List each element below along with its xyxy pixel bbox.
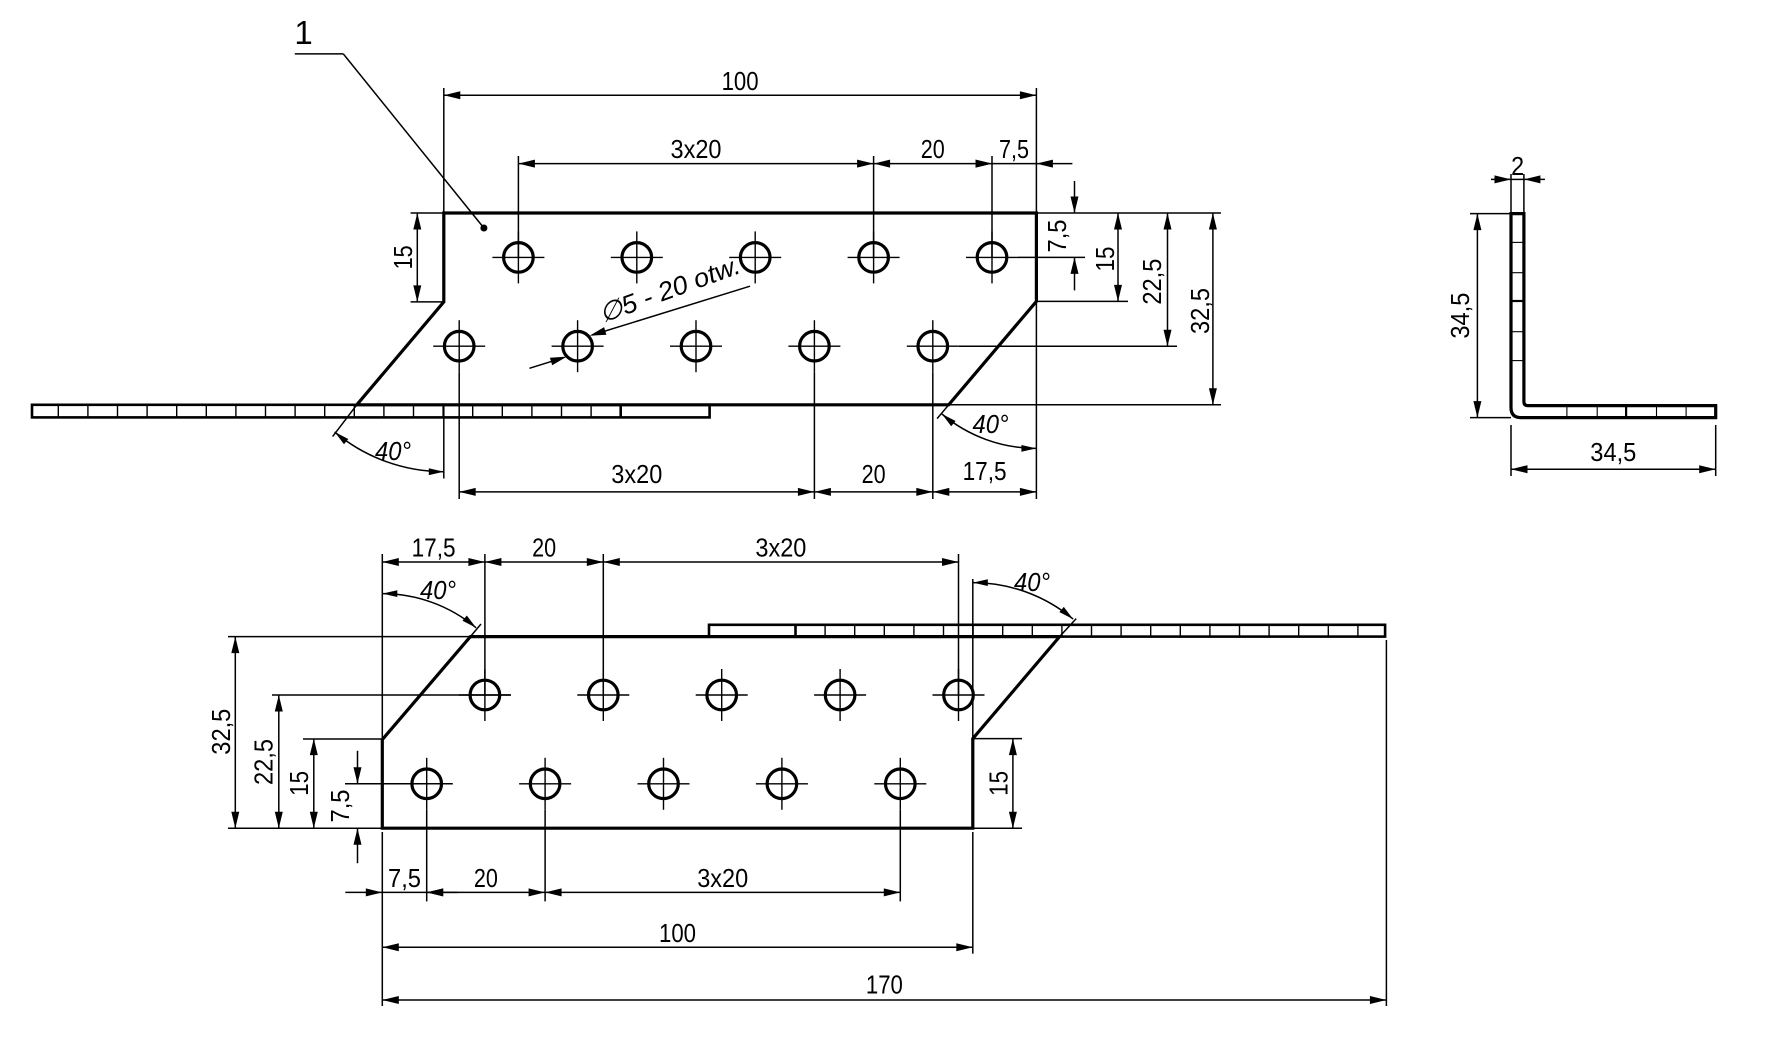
svg-text:7,5: 7,5: [1042, 220, 1072, 253]
bottom view hole lower row 2: [519, 758, 571, 810]
ext lines side view bottom: [1511, 425, 1716, 476]
dimension 100 bottom view: [382, 918, 973, 952]
dimension 17,5 top view lower: [933, 456, 1037, 496]
ext line strip end down: [1385, 640, 1387, 1006]
dimension 32,5 top view right: [1185, 213, 1217, 405]
right diagonal thin extension: [937, 405, 949, 419]
svg-text:22,5: 22,5: [249, 739, 279, 785]
svg-text:40°: 40°: [420, 575, 456, 605]
svg-text:100: 100: [659, 918, 696, 948]
bottom view hole upper row 1: [459, 669, 511, 721]
top view hole lower row 2: [552, 320, 604, 372]
dimension 15 bottom view right: [984, 739, 1017, 829]
top view hole lower row 5: [907, 320, 959, 372]
svg-text:3x20: 3x20: [755, 533, 806, 563]
dimension 20 bottom view upper: [485, 533, 603, 567]
dimension 17,5 bottom view: [382, 533, 485, 567]
angle 40 top view right: [942, 409, 1037, 452]
ext line hole BT2 up: [602, 554, 604, 695]
svg-text:3x20: 3x20: [697, 863, 748, 893]
ext line top edge right: [1036, 212, 1221, 214]
ext line plate left edge extension down: [443, 405, 445, 479]
ext line right corner level right: [973, 738, 1022, 740]
left diagonal thin extension: [333, 405, 357, 437]
svg-text:15: 15: [284, 771, 314, 796]
ext line left edge down: [381, 832, 383, 1006]
bottom view hole lower row 1: [401, 758, 453, 810]
dimension 3x20 bottom view upper: [603, 533, 958, 567]
dimension 22,5 top view right: [1137, 213, 1172, 346]
svg-text:1: 1: [294, 14, 312, 51]
dimension 34,5 side view vertical: [1445, 214, 1481, 418]
ext line lower hole row left: [345, 783, 453, 785]
svg-text:100: 100: [722, 66, 759, 96]
dimension 2 side view: [1491, 151, 1545, 183]
dimension 7,5 top view upper: [976, 134, 1073, 168]
svg-text:20: 20: [862, 459, 886, 489]
dimension 3x20 top view lower: [459, 459, 814, 496]
ext line right edge down: [972, 832, 974, 954]
bottom view tab strip (edge-on): [709, 625, 1385, 637]
bottom view hole upper row 4: [814, 669, 866, 721]
ext line bottom edge right: [949, 404, 1221, 406]
dimension 170 bottom view: [382, 970, 1386, 1005]
bottom view hole lower row 3: [638, 758, 690, 810]
ext line hole T1 up: [517, 156, 519, 257]
ext line hole BB1 down: [426, 810, 428, 902]
bottom view hole upper row 2: [577, 669, 629, 721]
dimension 7,5 top view right: [1042, 181, 1079, 290]
svg-text:40°: 40°: [375, 436, 411, 466]
side view vertical leg ticks: [1511, 242, 1524, 360]
ext lines side view left: [1470, 214, 1511, 418]
svg-text:20: 20: [921, 134, 945, 164]
top view hole upper row 2: [611, 231, 663, 283]
top view hole upper row 4: [848, 231, 900, 283]
bottom view hole lower row 4: [756, 758, 808, 810]
hole size leader arrow lower: [529, 357, 566, 369]
dimension 20 top view lower: [814, 459, 932, 496]
ext line upper hole row right: [1018, 256, 1085, 258]
bottom view hole lower row 5: [874, 758, 926, 810]
bottom left diagonal thin extension: [470, 624, 481, 637]
dimension 15 top view left: [388, 213, 422, 302]
bottom view hole upper row 3: [696, 669, 748, 721]
svg-text:22,5: 22,5: [1137, 259, 1167, 305]
top view strip divider: [619, 405, 622, 418]
ext line left corner level: [411, 301, 444, 303]
ext line lower hole row right: [959, 345, 1177, 347]
dimension 3x20 top view upper: [518, 134, 873, 168]
svg-text:3x20: 3x20: [611, 459, 662, 489]
dimension 3x20 bottom view lower: [545, 863, 900, 896]
svg-text:170: 170: [866, 970, 903, 1000]
svg-text:20: 20: [474, 863, 498, 893]
top view hole lower row 3: [670, 320, 722, 372]
svg-text:7,5: 7,5: [388, 863, 421, 893]
ext line bottom edge right: [973, 827, 1022, 829]
svg-text:17,5: 17,5: [412, 533, 456, 563]
top view hole lower row 4: [788, 320, 840, 372]
svg-text:40°: 40°: [973, 409, 1009, 439]
dimension 7,5 bottom view left: [325, 751, 362, 863]
side view L-profile outline: [1511, 214, 1716, 418]
top view plate outline: [357, 213, 1037, 405]
bottom view plate outline: [382, 637, 1059, 829]
angle 40 bottom view left: [382, 575, 476, 628]
ext line hole B5 down: [932, 372, 934, 499]
top view strip teeth ticks: [58, 406, 591, 417]
dimension 34,5 side view horizontal: [1511, 437, 1716, 473]
top view hole upper row 1: [492, 231, 544, 283]
ext line top edge left: [228, 636, 470, 638]
svg-text:2: 2: [1511, 151, 1524, 181]
svg-text:3x20: 3x20: [671, 134, 722, 164]
ext line bottom view right edge up: [972, 579, 974, 739]
ext line right corner level: [1036, 300, 1128, 302]
hole size leader arrow upper: [590, 286, 751, 336]
ext line top edge left: [411, 212, 444, 214]
ext line hole B4 down: [813, 372, 815, 499]
ext line hole B1 down: [458, 372, 460, 499]
ext line hole BT1 up: [484, 554, 486, 695]
svg-text:15: 15: [984, 771, 1014, 796]
svg-text:15: 15: [388, 245, 418, 269]
dimension 100 top view: [444, 66, 1037, 100]
bottom right diagonal thin extension: [1060, 619, 1077, 637]
dimension 20 top view upper: [874, 134, 992, 168]
ext line hole BT5 up: [958, 554, 960, 695]
dimension 15 bottom view left: [284, 739, 318, 829]
svg-text:34,5: 34,5: [1590, 437, 1636, 467]
dimension 32,5 bottom view left: [206, 637, 239, 829]
angle 40 bottom view right: [973, 567, 1073, 619]
dimension 15 top view right: [1090, 213, 1122, 301]
ext line bottom view left edge up: [381, 554, 383, 740]
svg-text:40°: 40°: [1014, 567, 1050, 597]
ext line plate right corner down: [1035, 301, 1037, 499]
svg-text:7,5: 7,5: [325, 790, 355, 823]
svg-text:34,5: 34,5: [1445, 293, 1475, 339]
svg-text:32,5: 32,5: [1185, 288, 1215, 334]
svg-text:32,5: 32,5: [206, 709, 236, 755]
ext line hole T5 up: [991, 156, 993, 257]
svg-text:7,5: 7,5: [999, 134, 1029, 164]
svg-text:20: 20: [532, 533, 556, 563]
dimension 22,5 bottom view left: [249, 695, 283, 828]
ext line hole T4 up: [873, 156, 875, 257]
top view hole upper row 3: [729, 231, 781, 283]
dimension 20 bottom view lower: [427, 863, 545, 896]
top view hole upper row 5: [966, 231, 1018, 283]
ext line hole BB5 down: [899, 810, 901, 902]
bottom view strip teeth ticks: [825, 626, 1358, 636]
ext line 100 left: [443, 88, 445, 213]
side view horizontal leg ticks: [1567, 406, 1686, 418]
ext line bottom edge left: [228, 827, 382, 829]
bottom view strip divider: [794, 625, 797, 637]
svg-text:17,5: 17,5: [963, 456, 1007, 486]
ext line upper hole row left: [272, 694, 511, 696]
ext line corner level left: [303, 738, 382, 740]
ext lines thickness 2: [1511, 174, 1524, 214]
angle 40 top view left: [335, 432, 444, 475]
top view hole lower row 1: [433, 320, 485, 372]
dimension 7,5 bottom view lower: [345, 863, 457, 896]
part label 1: [294, 14, 487, 232]
bottom view hole upper row 5: [933, 669, 985, 721]
ext line hole BB2 down: [544, 810, 546, 902]
ext line 100 right / plate right edge extension up: [1035, 88, 1037, 213]
top view tab strip (edge-on): [32, 405, 710, 418]
svg-text:15: 15: [1090, 247, 1120, 272]
